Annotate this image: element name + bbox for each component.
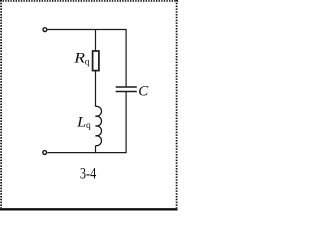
resistor Rq	[93, 51, 99, 71]
wire right branch bottom	[48, 92, 127, 153]
dotted border right	[176, 0, 178, 208]
capacitor C top plate	[116, 86, 137, 88]
capacitor C bottom plate	[116, 91, 137, 93]
svg-text:C: C	[138, 83, 149, 99]
wire right branch top	[125, 29, 127, 87]
dotted border top	[0, 0, 178, 2]
terminal top-left	[43, 28, 47, 32]
dotted border left	[0, 0, 2, 208]
wire middle branch bottom	[95, 146, 97, 154]
svg-text:R: R	[73, 50, 85, 66]
wire middle branch top	[95, 30, 97, 52]
svg-text:q: q	[85, 58, 90, 68]
svg-text:3-4: 3-4	[80, 165, 97, 182]
wire top	[48, 29, 127, 31]
svg-text:q: q	[86, 121, 91, 131]
terminal bottom-left	[43, 151, 47, 155]
wire middle branch mid	[95, 71, 97, 107]
solid border bottom	[0, 208, 178, 210]
svg-text:L: L	[76, 114, 86, 130]
inductor Lq	[96, 106, 102, 145]
